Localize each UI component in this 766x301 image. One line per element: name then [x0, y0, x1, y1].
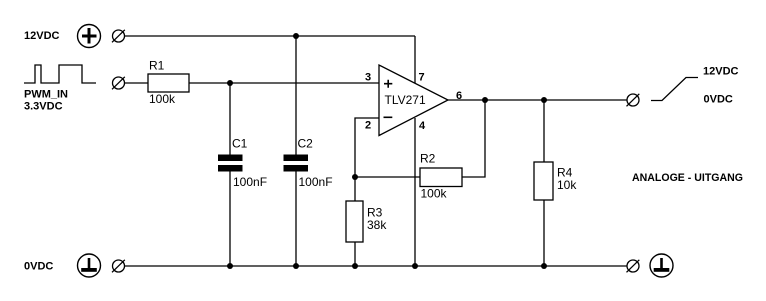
svg-text:0VDC: 0VDC: [704, 94, 733, 106]
connector 0VDC left: [112, 260, 125, 273]
connector PWM input: [112, 77, 125, 90]
wire C2 vertical: [295, 36, 297, 266]
svg-text:C1: C1: [232, 137, 248, 151]
junction R1/C1 node: [227, 80, 233, 86]
junction inverting input node: [352, 174, 358, 180]
svg-text:100nF: 100nF: [299, 175, 333, 189]
wire pin4 riser: [414, 118, 416, 266]
wire R3 bottom: [354, 242, 356, 266]
svg-text:2: 2: [365, 120, 371, 132]
junction R4 ground: [541, 263, 547, 269]
wire R1 to pin3: [189, 82, 379, 84]
svg-text:6: 6: [456, 90, 462, 102]
wire bottom rail 0VDC: [125, 265, 627, 267]
svg-text:12VDC: 12VDC: [24, 30, 60, 42]
resistor R4: [534, 162, 577, 200]
capacitor C2: [284, 137, 333, 190]
wire PWM input to R1: [125, 82, 148, 84]
wire output: [448, 99, 627, 101]
wire R3 top: [354, 177, 356, 201]
svg-text:PWM_IN: PWM_IN: [24, 89, 68, 101]
svg-text:0VDC: 0VDC: [24, 261, 53, 273]
junction feedback to output: [482, 97, 488, 103]
op-amp U1 TLV271: [365, 65, 462, 136]
svg-text:ANALOGE - UITGANG: ANALOGE - UITGANG: [632, 172, 743, 184]
svg-text:12VDC: 12VDC: [703, 66, 739, 78]
junction R4 top: [541, 97, 547, 103]
svg-text:3.3VDC: 3.3VDC: [24, 101, 63, 113]
junction C2 top rail: [293, 33, 299, 39]
wire R4 top: [543, 100, 545, 162]
resistor R1: [148, 59, 189, 107]
capacitor C1: [218, 137, 267, 190]
wire R4 bottom: [543, 200, 545, 266]
svg-text:C2: C2: [298, 137, 314, 151]
wire top rail 12VDC: [125, 35, 415, 37]
svg-text:R2: R2: [420, 152, 436, 166]
svg-text:100nF: 100nF: [233, 175, 267, 189]
PWM waveform icon: [24, 65, 96, 83]
junction C1 ground: [227, 263, 233, 269]
junction C2 ground: [293, 263, 299, 269]
svg-text:TLV271: TLV271: [385, 93, 426, 107]
ramp symbol output: [651, 78, 698, 101]
resistor R3: [346, 201, 387, 242]
ground symbol left: [78, 254, 101, 277]
svg-text:10k: 10k: [557, 178, 577, 192]
svg-text:100k: 100k: [421, 187, 448, 201]
svg-text:100k: 100k: [149, 92, 176, 106]
connector analog output: [627, 94, 640, 107]
svg-text:3: 3: [365, 72, 371, 84]
junction pin4 ground: [412, 263, 418, 269]
junction R3 ground: [352, 263, 358, 269]
wire node to R2: [355, 176, 420, 178]
svg-text:4: 4: [419, 120, 426, 132]
resistor R2: [420, 152, 462, 201]
connector 0VDC right: [627, 260, 640, 273]
svg-text:38k: 38k: [367, 218, 387, 232]
wire pin2 stub: [355, 118, 379, 177]
svg-text:R1: R1: [149, 59, 165, 73]
ground symbol right: [650, 254, 673, 277]
connector 12VDC input: [112, 30, 125, 43]
power symbol +12V: [78, 25, 101, 48]
svg-text:7: 7: [419, 72, 425, 84]
wire pin7 riser: [414, 36, 416, 83]
wire R2 to feedback riser: [462, 100, 485, 177]
wire C1 vertical: [229, 83, 231, 266]
